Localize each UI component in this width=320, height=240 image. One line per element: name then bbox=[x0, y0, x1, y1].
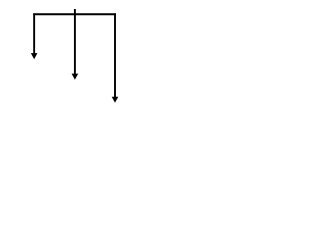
arrow A1: left short down arrow bbox=[31, 13, 38, 59]
wire: horizontal bus line bbox=[33, 13, 116, 15]
arrow A2: middle medium down arrow bbox=[72, 13, 79, 79]
wire: top stub at center bbox=[74, 9, 76, 14]
arrow A3: right long down arrow bbox=[112, 13, 119, 102]
